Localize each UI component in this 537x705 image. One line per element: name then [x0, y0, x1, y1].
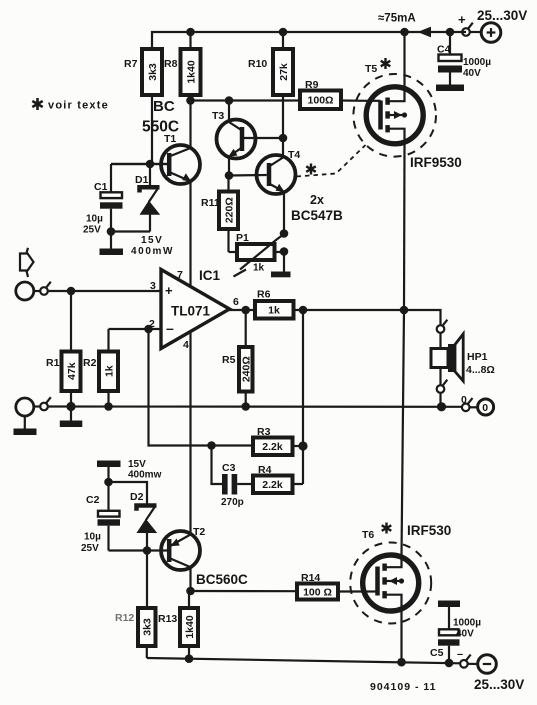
ground above D2/C2	[97, 461, 121, 483]
zener D2 15V	[128, 459, 162, 551]
svg-text:R7: R7	[124, 58, 138, 70]
svg-text:BC547B: BC547B	[291, 208, 343, 223]
svg-text:15V: 15V	[141, 235, 163, 246]
junction T2 collector / R13 / R14	[186, 587, 195, 596]
terminal input bottom	[14, 398, 41, 435]
connector speaker top	[437, 320, 448, 333]
svg-text:4...8Ω: 4...8Ω	[466, 364, 495, 376]
label voir texte	[32, 98, 109, 112]
svg-text:40V: 40V	[456, 629, 474, 640]
resistor R13 1k40	[158, 591, 198, 659]
junction feedback tap	[299, 306, 308, 315]
svg-text:R4: R4	[258, 464, 272, 476]
connector positive supply	[462, 23, 473, 36]
svg-text:–: –	[457, 649, 463, 661]
svg-text:220Ω: 220Ω	[223, 197, 235, 223]
svg-text:C3: C3	[222, 462, 236, 474]
svg-text:–: –	[166, 320, 174, 336]
junction D2 / R12 / T2 base	[143, 546, 152, 555]
junction T6 source	[397, 658, 406, 667]
wire input to pin 3	[48, 290, 161, 292]
transistor T4 BC547B	[229, 138, 300, 234]
mosfet T6 IRF530	[350, 523, 451, 663]
junction R7 / D1 / C1 / T1 base	[146, 160, 155, 169]
junction input / R1	[67, 287, 76, 296]
input arrow marker	[20, 248, 34, 277]
svg-text:T3: T3	[212, 110, 224, 122]
junction T3 emitter / T4 base / R11	[225, 171, 234, 180]
junction P1 right terminal	[280, 247, 289, 256]
svg-text:2.2k: 2.2k	[262, 479, 283, 491]
wire R6 node to feedback network	[302, 310, 304, 484]
transistor T3 BC547B	[212, 101, 281, 176]
junction C2 / D2 branch	[104, 478, 113, 487]
svg-text:BC: BC	[153, 98, 175, 115]
svg-text:D2: D2	[130, 491, 144, 503]
loudspeaker HP1	[431, 333, 495, 385]
svg-text:R1: R1	[46, 357, 60, 369]
svg-text:IRF9530: IRF9530	[410, 155, 462, 170]
junction R8 / T1 collector	[186, 96, 195, 105]
junction R13 bottom	[185, 654, 194, 663]
svg-text:+: +	[458, 12, 466, 27]
svg-text:IC1: IC1	[199, 268, 221, 283]
ground under C1	[100, 249, 124, 256]
wire IC1 pin 2	[109, 328, 162, 330]
svg-text:C5: C5	[430, 647, 444, 659]
svg-text:1k: 1k	[253, 263, 265, 274]
svg-text:400mW: 400mW	[131, 246, 174, 257]
resistor R9 100ohm	[300, 79, 367, 109]
junction feedback / C3 branch	[207, 441, 216, 450]
mosfet T5 IRF9530	[353, 32, 461, 170]
svg-text:1k40: 1k40	[185, 60, 197, 84]
junction T3 base / R10 / T4 collector	[279, 134, 288, 143]
svg-text:R9: R9	[305, 79, 319, 91]
wire T6 drain to output node	[402, 310, 405, 556]
resistor R5 240ohm	[222, 310, 253, 407]
junction P1 wiper / T4 emitter	[280, 229, 289, 238]
svg-text:0: 0	[482, 402, 488, 414]
svg-text:25...30V: 25...30V	[474, 677, 524, 692]
svg-text:7: 7	[177, 269, 183, 281]
wire R6 to output rail and speaker	[294, 310, 441, 325]
svg-text:10µ: 10µ	[86, 214, 103, 225]
svg-text:R11: R11	[201, 197, 220, 209]
wire T2 collector to R14	[191, 590, 298, 592]
resistor R14 100ohm	[297, 572, 363, 600]
svg-text:1000µ: 1000µ	[463, 57, 491, 68]
svg-text:100 Ω: 100 Ω	[303, 587, 332, 599]
svg-text:TL071: TL071	[171, 304, 211, 319]
junction R5 top	[241, 306, 250, 315]
svg-text:25V: 25V	[83, 225, 101, 236]
svg-text:R5: R5	[222, 354, 236, 366]
svg-text:R12: R12	[115, 612, 134, 624]
transistor T2 BC560C	[109, 526, 249, 591]
wire T1 base node	[111, 163, 167, 165]
capacitor C2 10u	[81, 482, 120, 554]
svg-text:T1: T1	[164, 133, 176, 145]
connector input bottom	[40, 397, 51, 410]
thermal coupling dashed line T4 to T5	[297, 145, 366, 177]
op-amp IC1 TL071	[149, 268, 239, 351]
svg-text:27k: 27k	[278, 63, 290, 81]
junction output rail	[400, 306, 409, 315]
svg-text:25V: 25V	[81, 543, 99, 554]
wire 0V rail	[48, 405, 462, 407]
svg-text:T5: T5	[365, 63, 377, 75]
resistor R6 1k	[255, 289, 294, 319]
svg-text:3k3: 3k3	[142, 618, 154, 636]
svg-text:100Ω: 100Ω	[308, 95, 334, 107]
terminal -25...30V	[468, 655, 525, 692]
junction C5 bottom	[445, 659, 454, 668]
svg-text:C4: C4	[437, 44, 451, 56]
wire IC1 output to R6	[229, 309, 255, 311]
svg-text:T6: T6	[362, 529, 374, 541]
ground under C4	[436, 85, 464, 92]
svg-text:voir texte: voir texte	[48, 100, 109, 112]
svg-text:15V: 15V	[128, 459, 146, 470]
svg-text:R3: R3	[257, 426, 271, 438]
terminal +25...30V	[458, 8, 527, 42]
junction rail/R10	[279, 28, 288, 37]
capacitor C5 1000u	[430, 618, 481, 663]
junction rail/C4	[446, 28, 455, 37]
svg-text:C1: C1	[94, 181, 108, 193]
svg-text:10µ: 10µ	[84, 532, 101, 543]
resistor R1 47k	[46, 291, 81, 407]
junction C1 bottom	[107, 227, 116, 236]
svg-text:2x: 2x	[310, 193, 324, 207]
resistor R3 2.2k	[253, 426, 303, 455]
svg-text:25...30V: 25...30V	[477, 8, 527, 23]
svg-text:C2: C2	[86, 494, 100, 506]
wire IC1 pin 4 to T2 emitter	[189, 332, 191, 534]
wire C1/D1 bottom link	[111, 230, 150, 232]
svg-text:6: 6	[233, 296, 239, 308]
svg-text:R2: R2	[83, 357, 97, 369]
svg-text:R14: R14	[301, 572, 320, 584]
svg-text:1k40: 1k40	[184, 615, 196, 639]
resistor R2 1k	[83, 329, 118, 407]
capacitor C4	[437, 32, 491, 85]
wire T1 emitter to IC1 pin 7	[189, 181, 191, 287]
svg-text:R10: R10	[248, 58, 267, 70]
svg-text:1000µ: 1000µ	[453, 618, 481, 629]
svg-text:HP1: HP1	[467, 351, 488, 363]
junction R5 bottom	[241, 402, 250, 411]
current arrow 75mA	[378, 13, 431, 38]
svg-text:270p: 270p	[221, 497, 244, 508]
junction rail/T5 source	[400, 28, 409, 37]
wire negative supply rail	[147, 658, 460, 663]
svg-text:1k: 1k	[268, 305, 280, 317]
junction R2 bottom	[104, 402, 113, 411]
svg-text:3k3: 3k3	[147, 63, 159, 81]
svg-text:4: 4	[183, 339, 189, 351]
junction pin2 / feedback	[144, 325, 153, 334]
connector negative supply	[457, 649, 471, 668]
resistor R4 2.2k	[253, 464, 303, 493]
wire driver node R8/T1/T3/R9	[191, 99, 301, 101]
svg-text:+: +	[165, 283, 173, 298]
svg-text:BC560C: BC560C	[196, 572, 248, 587]
junction R3 right	[298, 441, 307, 450]
wire feedback down to R3	[149, 329, 254, 446]
svg-text:R8: R8	[164, 58, 178, 70]
ground under R1	[60, 407, 83, 428]
svg-text:P1: P1	[236, 232, 249, 244]
connector input top	[40, 282, 51, 295]
svg-text:≈75mA: ≈75mA	[378, 13, 416, 25]
svg-text:400mw: 400mw	[128, 470, 162, 481]
junction speaker return	[437, 402, 446, 411]
node 0 connector	[461, 394, 473, 411]
wire D2 branch	[109, 482, 148, 504]
connector speaker bottom	[437, 380, 448, 407]
capacitor C1 10u	[83, 164, 123, 249]
svg-text:R6: R6	[257, 289, 271, 301]
svg-text:IRF530: IRF530	[407, 523, 451, 538]
junction R1 / ground	[66, 402, 75, 411]
svg-text:240Ω: 240Ω	[241, 356, 253, 382]
wire positive supply rail	[152, 32, 466, 49]
svg-text:R13: R13	[158, 613, 177, 625]
resistor R10 27k	[248, 32, 293, 138]
terminal 0	[470, 399, 494, 415]
wire T5 drain to output node	[403, 144, 406, 311]
svg-text:1k: 1k	[103, 365, 115, 377]
resistor R12 3k3	[115, 551, 156, 659]
svg-text:D1: D1	[135, 174, 149, 186]
resistor R8 1k40	[164, 32, 201, 101]
junction T3 collector tap	[225, 96, 234, 105]
terminal input top	[16, 282, 40, 300]
svg-text:47k: 47k	[66, 362, 78, 380]
ground under P1	[271, 252, 291, 278]
transistor T1 BC550C	[111, 98, 200, 184]
resistor R7 3k3	[124, 49, 162, 164]
svg-text:904109 - 11: 904109 - 11	[370, 681, 436, 693]
junction rail/R8	[186, 28, 195, 37]
label 2x BC547B	[291, 193, 343, 223]
svg-text:T2: T2	[193, 526, 205, 538]
asterisk near T4	[306, 164, 316, 175]
svg-text:40V: 40V	[463, 68, 481, 79]
resistor R11 220ohm	[201, 176, 238, 253]
svg-text:T4: T4	[288, 149, 300, 161]
capacitor C3 270p	[212, 446, 254, 509]
zener D1 15V	[131, 164, 174, 257]
potentiometer P1 1k	[229, 232, 285, 277]
svg-text:2.2k: 2.2k	[262, 441, 283, 453]
ground above C5	[438, 601, 460, 630]
